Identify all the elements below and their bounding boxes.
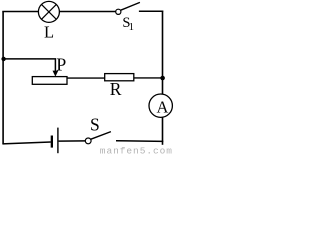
potentiometer P body [32, 77, 67, 85]
node junction left [1, 57, 5, 61]
wire right vertical upper [162, 11, 164, 95]
wire right vertical lower [162, 117, 164, 145]
label L [44, 23, 54, 42]
resistor R [105, 74, 134, 81]
battery short plate [51, 136, 53, 148]
label R [110, 79, 122, 99]
wire S1 right contact [139, 10, 163, 12]
svg-text:S: S [90, 115, 100, 135]
wire resistor to junction [134, 77, 162, 79]
watermark manfen5.com [100, 145, 173, 156]
svg-text:A: A [157, 97, 169, 116]
label S [90, 115, 100, 135]
label A [157, 97, 169, 116]
label S1 [122, 15, 134, 33]
wire junction left to pot wiper [3, 58, 56, 60]
lamp L [38, 1, 59, 22]
switch S [85, 132, 111, 144]
wire pot to resistor [67, 77, 105, 79]
potentiometer P wiper arrow [53, 59, 59, 77]
wire lamp to switch S1 [59, 11, 116, 13]
label P [56, 54, 66, 74]
wire battery to switch S [59, 140, 86, 142]
wire left vertical [2, 12, 4, 144]
switch S1 [116, 2, 140, 14]
svg-text:L: L [44, 23, 54, 42]
svg-text:manfen5.com: manfen5.com [100, 145, 173, 154]
svg-text:1: 1 [129, 22, 134, 33]
wire bottom left to battery [2, 142, 50, 144]
node junction right [160, 76, 165, 81]
svg-text:R: R [110, 79, 122, 99]
wire switch S to bottom right corner [116, 140, 163, 143]
wire top left to lamp [2, 11, 38, 13]
battery long plate [57, 128, 59, 154]
ammeter A [149, 94, 172, 117]
svg-text:P: P [56, 54, 66, 74]
